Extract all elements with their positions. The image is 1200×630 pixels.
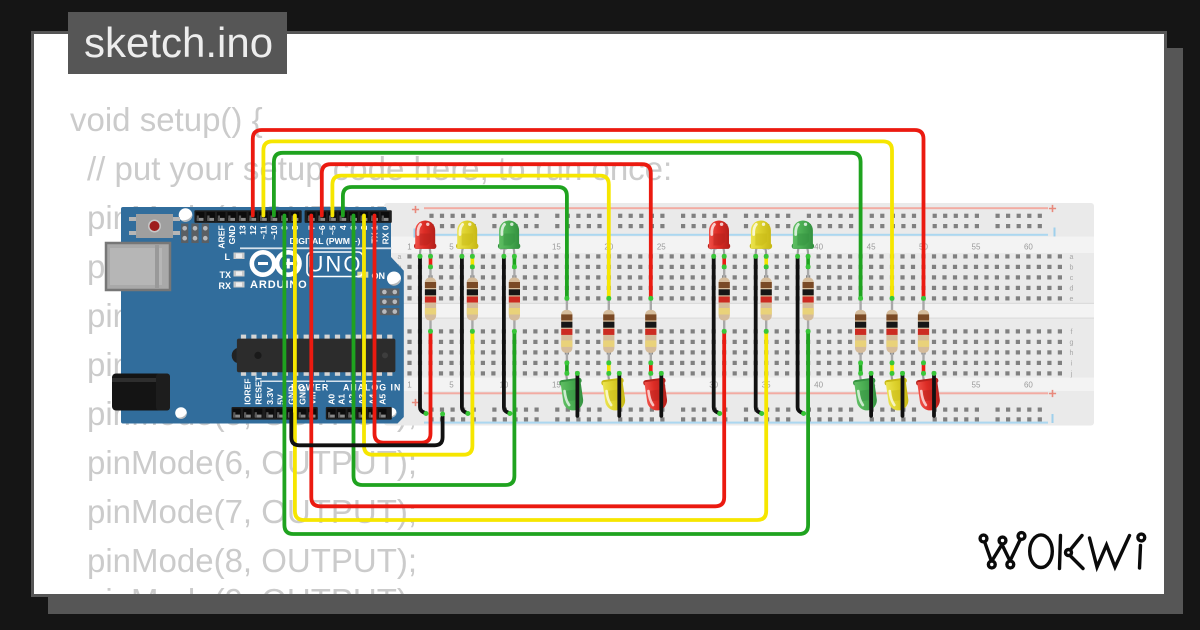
svg-text:55: 55 bbox=[972, 243, 981, 252]
svg-text:55: 55 bbox=[972, 381, 981, 390]
sketch code text bbox=[70, 101, 263, 139]
+ mark bottom left bbox=[412, 399, 419, 406]
svg-text:e: e bbox=[1070, 296, 1074, 303]
jumper wire yellow (D5) bbox=[607, 363, 611, 374]
svg-text:1: 1 bbox=[407, 243, 412, 252]
svg-text:3.3V: 3.3V bbox=[265, 387, 275, 405]
svg-text:A0: A0 bbox=[327, 394, 337, 405]
junction dots bbox=[418, 254, 937, 417]
resistor R8 bbox=[603, 298, 614, 363]
resistor R7 bbox=[561, 298, 572, 363]
svg-text:15: 15 bbox=[552, 243, 561, 252]
breadboard + rail line bottom bbox=[424, 392, 1048, 394]
wire green pin9 bbox=[284, 216, 808, 535]
ATmega328 chip bbox=[232, 335, 396, 376]
wire black gnd D4 bbox=[576, 373, 580, 416]
wire black gnd D1 bbox=[420, 256, 426, 413]
jumper wire green (D3) bbox=[513, 256, 517, 267]
wire black gnd D9 bbox=[798, 256, 804, 413]
jumper wire green (D10) bbox=[859, 363, 863, 374]
power header bbox=[232, 407, 318, 420]
breadboard - rail line bottom bbox=[424, 422, 1048, 424]
wire black gnd D2 bbox=[462, 256, 468, 413]
svg-text:IOREF: IOREF bbox=[243, 379, 253, 405]
svg-text:~5: ~5 bbox=[328, 225, 338, 235]
LED D5 (yellow) bbox=[601, 373, 628, 411]
LED D11 (yellow) bbox=[884, 373, 911, 411]
wire black GND arduino bbox=[291, 413, 442, 445]
svg-text:25: 25 bbox=[657, 243, 666, 252]
svg-text:4: 4 bbox=[338, 225, 348, 230]
LED D3 (green) bbox=[498, 221, 520, 257]
wire black gnd D6 bbox=[659, 373, 663, 416]
svg-text:j: j bbox=[1070, 371, 1073, 378]
breadboard bbox=[384, 203, 1094, 426]
power jack bbox=[112, 374, 170, 411]
wire red pin7 bbox=[311, 216, 724, 507]
resistor R5 bbox=[761, 267, 772, 332]
jumper wire yellow (D2) bbox=[471, 256, 475, 267]
breadboard hole grid bbox=[407, 214, 1062, 422]
svg-text:AREF: AREF bbox=[216, 225, 226, 248]
LED D10 (green) bbox=[853, 373, 880, 411]
resistor R2 bbox=[467, 267, 478, 332]
svg-text:g: g bbox=[1070, 339, 1074, 346]
resistor R6 bbox=[803, 267, 814, 332]
breadboard row letters bbox=[398, 254, 1074, 378]
ICSP header 1 bbox=[181, 224, 188, 244]
svg-text:~6: ~6 bbox=[317, 225, 327, 235]
sketch.ino tab bbox=[68, 12, 287, 74]
resistor R11 bbox=[886, 298, 897, 363]
LED D4 (green) bbox=[559, 373, 586, 411]
ICSP header 2 bbox=[380, 288, 400, 295]
USB connector bbox=[106, 243, 170, 290]
LED D2 (yellow) bbox=[456, 221, 478, 257]
svg-text:ARDUINO: ARDUINO bbox=[250, 279, 308, 291]
svg-text:RX 0: RX 0 bbox=[380, 225, 390, 244]
svg-text:h: h bbox=[1070, 350, 1074, 357]
digital header 7-0 bbox=[305, 210, 392, 223]
mounting holes bbox=[179, 208, 193, 222]
svg-text:60: 60 bbox=[1024, 381, 1033, 390]
wire red pin12 bbox=[253, 130, 924, 298]
L TX RX LEDs bbox=[218, 252, 231, 291]
wire black gnd D5 bbox=[617, 373, 621, 416]
+ mark top left bbox=[412, 206, 419, 213]
svg-text:RESET: RESET bbox=[253, 375, 263, 404]
LED D1 (red) bbox=[414, 221, 436, 257]
wire green pin10 bbox=[274, 153, 861, 299]
svg-text:L: L bbox=[225, 252, 231, 262]
resistor R10 bbox=[855, 298, 866, 363]
wire black gnd D3 bbox=[504, 256, 510, 413]
svg-text:12: 12 bbox=[248, 225, 258, 235]
jumper wire red (D6) bbox=[649, 363, 653, 374]
svg-text:DIGITAL (PWM ~): DIGITAL (PWM ~) bbox=[290, 236, 361, 246]
jumper wire red (D7) bbox=[722, 256, 726, 267]
LED D8 (yellow) bbox=[750, 221, 772, 257]
resistor R12 bbox=[918, 298, 929, 363]
svg-text:13: 13 bbox=[238, 225, 248, 235]
wire yellow pin5 bbox=[332, 176, 608, 299]
+ mark top right bbox=[1049, 205, 1056, 212]
jumper wire yellow (D8) bbox=[764, 256, 768, 267]
wire green pin4 bbox=[343, 187, 567, 298]
+ mark bottom right bbox=[1049, 390, 1056, 397]
svg-text:TX: TX bbox=[219, 270, 231, 280]
breadboard - rail line top bbox=[424, 234, 1048, 236]
resistor R3 bbox=[509, 267, 520, 332]
svg-text:A5: A5 bbox=[378, 394, 388, 405]
svg-text:f: f bbox=[1071, 329, 1073, 336]
LED D9 (green) bbox=[792, 221, 814, 257]
jumper wire red (D1) bbox=[429, 256, 433, 267]
jumper wire green (D9) bbox=[806, 256, 810, 267]
Arduino Uno board bbox=[106, 207, 404, 424]
svg-text:5: 5 bbox=[449, 381, 454, 390]
wire red pin6 bbox=[322, 164, 651, 298]
svg-text:RX: RX bbox=[218, 281, 231, 291]
wire black gnd D10 bbox=[869, 373, 873, 416]
svg-text:~11: ~11 bbox=[259, 225, 269, 239]
wire red pin1 bbox=[375, 216, 431, 443]
svg-text:a: a bbox=[398, 254, 402, 261]
reset button bbox=[136, 214, 173, 238]
wire black gnd D7 bbox=[714, 256, 720, 413]
resistor R1 bbox=[425, 267, 436, 332]
svg-text:40: 40 bbox=[814, 381, 823, 390]
jumper wire red (D12) bbox=[922, 363, 926, 374]
breadboard column numbers bbox=[407, 243, 1033, 390]
wire yellow pin11 bbox=[263, 141, 892, 298]
resistor R9 bbox=[645, 298, 656, 363]
wire black gnd D8 bbox=[756, 256, 762, 413]
svg-text:1: 1 bbox=[407, 381, 412, 390]
UNO text bbox=[307, 252, 363, 277]
svg-text:40: 40 bbox=[814, 243, 823, 252]
jumper wire yellow (D11) bbox=[890, 363, 894, 374]
analog header bbox=[326, 407, 392, 420]
wire green pin3 bbox=[354, 216, 515, 486]
jumper wire green (D4) bbox=[565, 363, 569, 374]
svg-text:d: d bbox=[1070, 285, 1074, 292]
wire black gnd D11 bbox=[901, 373, 905, 416]
resistor R4 bbox=[719, 267, 730, 332]
svg-text:a: a bbox=[1070, 254, 1074, 261]
svg-text:GND: GND bbox=[227, 225, 237, 244]
svg-text:b: b bbox=[1070, 264, 1074, 271]
digital header 13-8 bbox=[194, 210, 301, 223]
wire yellow pin2 bbox=[364, 216, 472, 455]
svg-text:60: 60 bbox=[1024, 243, 1033, 252]
svg-text:45: 45 bbox=[867, 243, 876, 252]
LED D6 (red) bbox=[643, 373, 670, 411]
WOKWI logo bbox=[980, 533, 1145, 569]
wire black gnd D12 bbox=[932, 373, 936, 416]
Arduino logo bbox=[252, 252, 300, 274]
svg-text:A1: A1 bbox=[337, 394, 347, 405]
svg-text:~10: ~10 bbox=[269, 225, 279, 240]
breadboard + rail line top bbox=[424, 207, 1048, 209]
pin labels bbox=[216, 225, 390, 405]
svg-text:5: 5 bbox=[449, 243, 454, 252]
svg-text:c: c bbox=[1070, 275, 1074, 282]
LED D12 (red) bbox=[916, 373, 943, 411]
LED D7 (red) bbox=[708, 221, 730, 257]
wire yellow pin8 bbox=[295, 216, 766, 521]
ON LED bbox=[357, 272, 368, 278]
